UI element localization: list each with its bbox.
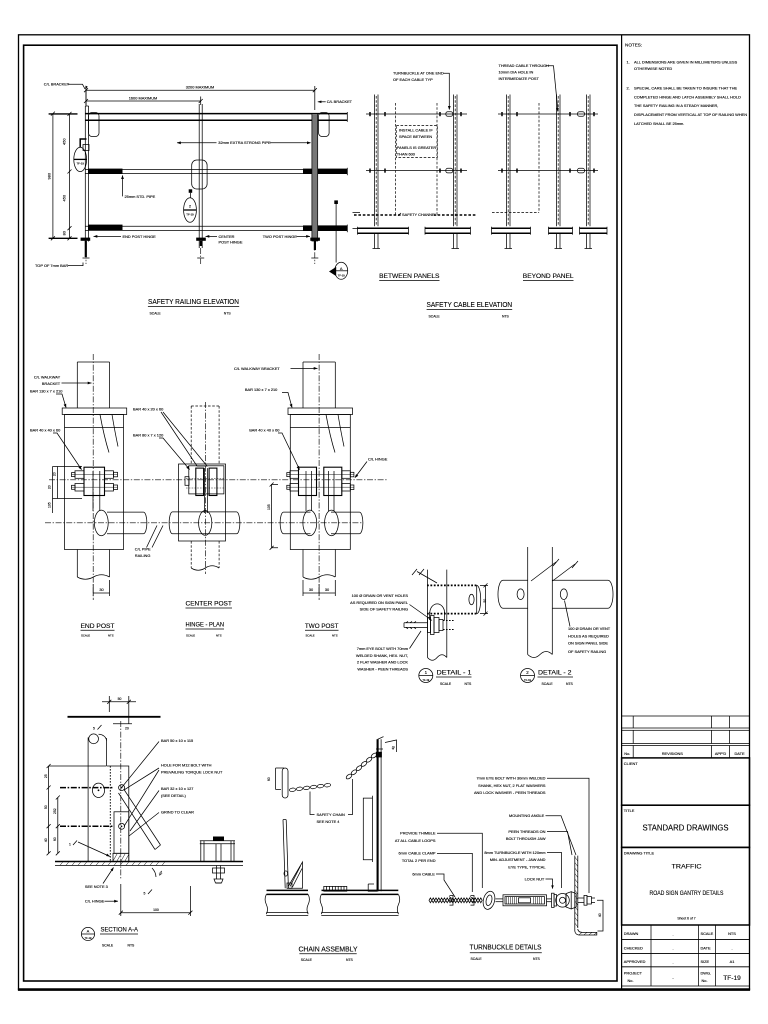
svg-text:SAFETY CHANNEL: SAFETY CHANNEL — [402, 212, 438, 217]
svg-text:SCALE: SCALE — [150, 311, 162, 315]
svg-text:MIN. ADJUSTMENT - JAW AND: MIN. ADJUSTMENT - JAW AND — [490, 857, 546, 862]
svg-text:SCALE: SCALE — [102, 944, 114, 948]
svg-text:TF-19: TF-19 — [186, 212, 194, 216]
dim 40 right — [597, 900, 603, 931]
svg-text:25mm STD. PIPE: 25mm STD. PIPE — [125, 194, 156, 199]
svg-text:100 Ø DRAIN OR VENT: 100 Ø DRAIN OR VENT — [568, 626, 611, 631]
svg-text:SCALE: SCALE — [440, 682, 452, 686]
svg-text:SCALE: SCALE — [81, 633, 90, 637]
svg-text:DATE: DATE — [734, 751, 744, 756]
svg-text:A: A — [87, 929, 90, 934]
svg-text:No.: No. — [628, 978, 634, 983]
TWO POST bracket curves — [326, 415, 344, 453]
svg-text:SAFETY RAILING ELEVATION: SAFETY RAILING ELEVATION — [148, 297, 239, 306]
svg-text:TF-19: TF-19 — [85, 936, 92, 940]
svg-text:TWO POST HINGE: TWO POST HINGE — [263, 234, 297, 239]
DETAIL 1 eye bolt dome — [430, 604, 445, 613]
svg-text:SCALE: SCALE — [429, 314, 441, 318]
svg-text:60: 60 — [53, 837, 57, 841]
install cable dashed box — [396, 126, 437, 158]
CENTER POST vertical centerline — [204, 402, 206, 574]
svg-text:POST HINGE: POST HINGE — [219, 240, 243, 245]
right rod — [547, 898, 552, 900]
svg-text:THAN 600: THAN 600 — [397, 151, 416, 156]
svg-text:OF EACH CABLE TYP: OF EACH CABLE TYP — [393, 77, 433, 82]
END POST left dims — [52, 467, 54, 514]
bottom rail 25mm pipe — [86, 225, 348, 227]
svg-text:No.: No. — [702, 978, 708, 983]
CENTER POST pipe above dashed — [190, 406, 192, 464]
svg-text:C/L PIPE: C/L PIPE — [135, 547, 151, 552]
DETAIL 1 washers and nut — [428, 618, 431, 633]
svg-text:105: 105 — [267, 504, 271, 510]
svg-text:40: 40 — [44, 838, 48, 842]
right walkway band — [322, 889, 399, 891]
END POST bottom dim 30 — [92, 584, 94, 596]
TWO POST top cap — [288, 408, 353, 415]
column dividers bottom table — [650, 925, 652, 986]
svg-text:NTS: NTS — [128, 944, 136, 948]
svg-text:RAILING: RAILING — [135, 553, 151, 558]
left view stored post — [283, 820, 285, 889]
svg-text:SPACE BETWEEN: SPACE BETWEEN — [399, 134, 432, 139]
DETAIL 1 post — [427, 570, 429, 658]
beyond left base — [492, 227, 531, 229]
two post base plate — [310, 238, 320, 241]
svg-text:OF SAFETY RAILING: OF SAFETY RAILING — [568, 649, 606, 654]
left post base — [358, 227, 409, 229]
latch plate — [107, 766, 129, 862]
DETAIL 2 balloon — [521, 669, 535, 683]
svg-text:TF-19: TF-19 — [723, 975, 741, 982]
svg-text:NTS: NTS — [465, 682, 473, 686]
svg-text:CHECKED: CHECKED — [624, 945, 643, 950]
end post base plate — [81, 238, 91, 241]
post pipe — [87, 738, 89, 862]
svg-text:ON SIGN PANEL SIDE: ON SIGN PANEL SIDE — [568, 641, 608, 646]
chain links horizontal — [289, 788, 296, 792]
svg-text:BAR 32 x 10 x 127: BAR 32 x 10 x 127 — [161, 786, 193, 791]
outer border thick bottom edge — [18, 988, 750, 991]
svg-text:TOP OF 7mm BAR: TOP OF 7mm BAR — [35, 263, 68, 268]
svg-text:TRAFFIC: TRAFFIC — [672, 864, 702, 871]
svg-text:LOCK NUT: LOCK NUT — [525, 876, 545, 881]
beyond mid cable — [498, 170, 598, 172]
CENTER POST hinge — [189, 466, 224, 494]
base angle bracket — [368, 884, 377, 891]
latch bar diagonal — [124, 790, 161, 846]
svg-text:DATE: DATE — [701, 945, 711, 950]
END POST bracket curves — [100, 415, 118, 453]
svg-text:252: 252 — [53, 808, 57, 814]
drawn row — [622, 925, 750, 940]
mid cable — [366, 170, 467, 172]
svg-text:TF-19: TF-19 — [524, 678, 531, 682]
svg-text:EYE TYPE, TYPICAL: EYE TYPE, TYPICAL — [508, 864, 546, 869]
svg-text:SCALE: SCALE — [471, 957, 483, 961]
svg-text:NTS: NTS — [108, 633, 114, 637]
svg-text:6mm CABLE CLAMP: 6mm CABLE CLAMP — [399, 851, 436, 856]
END POST body — [65, 415, 124, 550]
svg-text:AS REQUIRED ON SIGN PANEL: AS REQUIRED ON SIGN PANEL — [350, 600, 409, 605]
CENTER POST rail pipe — [173, 511, 237, 513]
svg-text:TURNBUCKLE AT ONE END: TURNBUCKLE AT ONE END — [393, 71, 444, 76]
dim 3200 maximum — [86, 89, 315, 91]
end post hinge pieces — [83, 145, 89, 151]
left view chain post capsule — [282, 768, 288, 798]
svg-text:NTS: NTS — [566, 682, 574, 686]
svg-text:32mm EXTRA STRONG PIPE: 32mm EXTRA STRONG PIPE — [218, 140, 271, 145]
svg-text:C/L BRACKET: C/L BRACKET — [327, 99, 353, 104]
bolt through angle — [578, 897, 584, 899]
END POST rail pipe — [107, 511, 144, 513]
panel edge dashed lines — [395, 103, 397, 215]
svg-text:HINGE - PLAN: HINGE - PLAN — [186, 622, 225, 629]
svg-text:MOUNTING ANGLE: MOUNTING ANGLE — [509, 813, 545, 818]
top rail line — [68, 716, 161, 718]
grating hatch block — [324, 886, 347, 891]
svg-text:SCALE: SCALE — [542, 682, 554, 686]
thimble eye — [481, 890, 496, 911]
svg-text:60: 60 — [267, 777, 271, 781]
CENTER POST leader triangle — [161, 412, 207, 466]
DETAIL 2 weld marks — [553, 559, 578, 568]
svg-text:50: 50 — [44, 805, 48, 809]
hinge centerline across row — [49, 479, 388, 481]
top cable turnbuckle — [446, 112, 453, 117]
balloon A — [81, 927, 94, 940]
safety channel dashed line — [354, 214, 476, 216]
section cut mark — [334, 200, 338, 204]
hex nut on bolt — [566, 892, 576, 909]
center post base plate — [196, 238, 206, 241]
svg-text:WASHER - PEEN THREADS: WASHER - PEEN THREADS — [357, 666, 408, 671]
svg-text:20: 20 — [125, 727, 129, 731]
svg-text:END POST: END POST — [81, 623, 115, 630]
svg-text:PEEN THREADS ON: PEEN THREADS ON — [508, 829, 545, 834]
two post centerline below — [314, 242, 316, 264]
svg-text:C/L HINGE: C/L HINGE — [368, 457, 388, 462]
svg-text:BAR 50 x 10 x 115: BAR 50 x 10 x 115 — [161, 738, 193, 743]
DETAIL 2 left pipe — [503, 579, 528, 581]
svg-text:BEYOND PANEL: BEYOND PANEL — [523, 273, 574, 280]
svg-text:20: 20 — [53, 472, 57, 476]
svg-text:TF-19: TF-19 — [76, 162, 84, 166]
TWO POST right dim 105 — [272, 485, 278, 548]
svg-text:DETAIL - 1: DETAIL - 1 — [437, 670, 473, 677]
svg-text:PROVIDE THIMBLE: PROVIDE THIMBLE — [400, 831, 436, 836]
svg-text:10mm DIA HOLE IN: 10mm DIA HOLE IN — [499, 70, 534, 75]
svg-text:SAFETY CABLE ELEVATION: SAFETY CABLE ELEVATION — [427, 300, 513, 309]
section A marker — [329, 267, 336, 276]
DETAIL 1 dim 50 — [480, 584, 488, 586]
DETAIL 1 eye bolt shaft — [404, 622, 428, 624]
svg-text:980: 980 — [47, 172, 52, 179]
sign panel — [363, 798, 372, 860]
svg-text:CLIENT: CLIENT — [624, 761, 638, 766]
svg-text:CENTER POST: CENTER POST — [186, 601, 233, 608]
svg-text:END POST HINGE: END POST HINGE — [123, 234, 157, 239]
label SAFETY CHANNEL — [398, 213, 401, 216]
svg-text:BAR 130 x 7 x 210: BAR 130 x 7 x 210 — [245, 387, 278, 392]
revision row 1 — [622, 716, 750, 728]
svg-text:INSTALL CABLE IF: INSTALL CABLE IF — [399, 128, 433, 133]
svg-text:20: 20 — [48, 485, 52, 489]
angle foot — [575, 929, 597, 935]
bottom rail 7mm bar left — [88, 225, 123, 230]
left dim chain 450/450/80 — [69, 114, 71, 238]
DETAIL 1 rail pipe dotted — [427, 584, 477, 586]
svg-text:SECTION A-A: SECTION A-A — [101, 927, 139, 934]
svg-text:STANDARD DRAWINGS: STANDARD DRAWINGS — [643, 824, 729, 833]
svg-text:NTS: NTS — [533, 957, 541, 961]
svg-text:APP'D: APP'D — [715, 751, 727, 756]
svg-text:100 Ø DRAIN OR VENT HOLES: 100 Ø DRAIN OR VENT HOLES — [352, 593, 409, 598]
svg-text:APPROVED: APPROVED — [624, 959, 646, 964]
rail continuation dashes right — [353, 212, 361, 214]
TWO POST hinge bolts — [290, 471, 299, 479]
svg-text:SAFETY CHAIN: SAFETY CHAIN — [317, 812, 345, 817]
revision row 2 — [622, 730, 750, 743]
svg-text:1.: 1. — [627, 59, 630, 64]
TWO POST body — [290, 415, 350, 550]
mid rail 7mm bar left — [88, 169, 123, 174]
TWO POST pipe above — [302, 362, 304, 408]
svg-text:DETAIL - 2: DETAIL - 2 — [538, 670, 572, 677]
checked row — [622, 940, 750, 954]
svg-text:C/L BRACKET: C/L BRACKET — [44, 82, 70, 87]
svg-text:DISPLACEMENT FROM VERTICAL AT: DISPLACEMENT FROM VERTICAL AT TOP OF RAI… — [634, 112, 747, 117]
center post detail outline — [192, 160, 207, 189]
svg-text:INTERMEDIATE POST: INTERMEDIATE POST — [499, 76, 540, 81]
svg-text:C/L WALKWAY: C/L WALKWAY — [34, 375, 61, 380]
svg-text:THE SAFETY RAILING IN A STEADY: THE SAFETY RAILING IN A STEADY MANNER, — [634, 103, 718, 108]
svg-text:SEE NOTE 4: SEE NOTE 4 — [317, 819, 341, 824]
latch triangle gusset — [289, 862, 303, 888]
CENTER POST pipe below dashed — [190, 541, 192, 568]
svg-text:2.: 2. — [627, 85, 630, 90]
svg-text:CENTER: CENTER — [219, 234, 235, 239]
rod to turnbuckle — [496, 898, 504, 900]
svg-text:.: . — [731, 946, 732, 951]
svg-text:No.: No. — [624, 751, 630, 756]
label SAFETY CHAIN SEE NOTE 4 — [310, 792, 315, 815]
beyond mid base — [549, 227, 573, 229]
left dim chains — [48, 766, 50, 853]
center post — [198, 104, 200, 248]
svg-text:NTS: NTS — [332, 633, 338, 637]
inner drawing frame — [24, 45, 617, 981]
svg-text:AND LOCK WASHER - PEEN THREADS: AND LOCK WASHER - PEEN THREADS — [474, 790, 546, 795]
svg-text:HOLES AS REQUIRED: HOLES AS REQUIRED — [568, 633, 609, 638]
svg-text:THREAD CABLE THROUGH: THREAD CABLE THROUGH — [499, 63, 550, 68]
svg-text:PREVAILING TORQUE LOCK NUT: PREVAILING TORQUE LOCK NUT — [161, 770, 223, 775]
svg-text:NTS: NTS — [728, 931, 736, 936]
svg-text:LATCHED SHALL BE 25mm.: LATCHED SHALL BE 25mm. — [634, 121, 684, 126]
drawing title box — [622, 847, 750, 925]
svg-text:C/L WALKWAY BRACKET: C/L WALKWAY BRACKET — [234, 366, 280, 371]
dash-dot hinge lines — [60, 787, 114, 789]
END POST vertical centerline — [92, 354, 94, 600]
svg-text:AT ALL CABLE LOOPS: AT ALL CABLE LOOPS — [395, 838, 436, 843]
chain anchor eye — [376, 752, 382, 758]
mid cable turnbuckle — [446, 168, 453, 173]
svg-text:DWG.: DWG. — [701, 970, 712, 975]
svg-text:.: . — [672, 946, 673, 951]
svg-text:NTS: NTS — [346, 958, 354, 962]
svg-text:OTHERWISE NOTED: OTHERWISE NOTED — [634, 66, 672, 71]
rail right end ticks — [346, 112, 348, 122]
svg-text:50: 50 — [118, 697, 122, 701]
dim 50 top — [108, 696, 110, 712]
svg-text:SIDE OF SAFETY RAILING: SIDE OF SAFETY RAILING — [360, 607, 408, 612]
CENTER POST body — [179, 464, 226, 541]
TWO POST pipe below — [302, 550, 304, 578]
BEYOND PANEL right post — [586, 95, 588, 227]
DETAIL 2 right pipe — [552, 579, 608, 581]
dim 100 bottom — [120, 884, 122, 916]
plate bolt holes — [119, 785, 125, 791]
svg-text:SHANK, HEX NUT, 2 FLAT WASHERS: SHANK, HEX NUT, 2 FLAT WASHERS — [478, 783, 546, 788]
END POST hinge bolts — [75, 471, 84, 479]
END POST pipe below — [76, 550, 78, 578]
center post centerline below — [200, 248, 202, 264]
svg-text:BAR 40 x 40 x 60: BAR 40 x 40 x 60 — [249, 428, 280, 433]
svg-text:SCALE: SCALE — [306, 633, 315, 637]
svg-text:BAR 130 x 7 x 210: BAR 130 x 7 x 210 — [30, 389, 63, 394]
mounting angle vertical — [574, 856, 576, 931]
svg-text:TITLE: TITLE — [624, 808, 635, 813]
diag leaders crossing plate — [122, 742, 159, 788]
BEYOND PANEL left post — [506, 95, 508, 227]
turnbuckle body — [503, 895, 547, 906]
svg-text:COMPLETED HINGE AND LATCH ASSE: COMPLETED HINGE AND LATCH ASSEMBLY SHALL… — [634, 94, 741, 99]
svg-text:SPECIAL CARE SHALL BE TAKEN TO: SPECIAL CARE SHALL BE TAKEN TO INSURE TH… — [634, 85, 738, 90]
svg-text:ALL DIMENSIONS ARE GIVEN IN MI: ALL DIMENSIONS ARE GIVEN IN MILLIMETERS … — [634, 59, 738, 64]
svg-text:NOTES:: NOTES: — [625, 43, 642, 48]
svg-text:100: 100 — [153, 908, 159, 912]
walkway surface — [55, 861, 243, 863]
DETAIL 2 post — [527, 547, 529, 655]
svg-text:SIZE: SIZE — [701, 959, 710, 964]
svg-text:NTS: NTS — [502, 314, 510, 318]
two post (shaded) — [312, 114, 318, 241]
svg-text:PANELS IS GREATER: PANELS IS GREATER — [397, 145, 437, 150]
post top dim — [385, 740, 397, 752]
svg-text:2 FLAT WASHER AND LOCK: 2 FLAT WASHER AND LOCK — [357, 660, 409, 665]
dim 1600 maximum — [86, 100, 201, 102]
svg-text:Sheet 6 of 7: Sheet 6 of 7 — [677, 917, 695, 921]
revision header row — [622, 746, 750, 758]
dim 20 — [113, 723, 132, 725]
svg-text:BAR 40 x 40 x 60: BAR 40 x 40 x 60 — [30, 428, 61, 433]
svg-text:25: 25 — [44, 774, 48, 778]
svg-text:BOLT THROUGH JAW: BOLT THROUGH JAW — [506, 836, 546, 841]
svg-text:8mm TURNBUCKLE WITH 120mm: 8mm TURNBUCKLE WITH 120mm — [484, 850, 545, 855]
svg-text:7mm EYE BOLT WITH 70mm: 7mm EYE BOLT WITH 70mm — [357, 646, 408, 651]
end post centerline below — [85, 242, 87, 264]
base hatch under plate — [113, 853, 129, 861]
beyond dashed region — [538, 103, 540, 213]
left walkway band — [267, 889, 309, 891]
left walkway body w/ wavy ends — [265, 894, 309, 914]
latch bar closed rect — [114, 812, 129, 854]
svg-text:ROAD SIGN GANTRY DETAILS: ROAD SIGN GANTRY DETAILS — [650, 890, 724, 897]
cable spiral — [429, 898, 482, 903]
svg-text:DRAWING TITLE: DRAWING TITLE — [624, 850, 655, 855]
svg-text:1600 MAXIMUM: 1600 MAXIMUM — [129, 95, 158, 100]
project row — [622, 967, 750, 986]
chain links rising — [345, 773, 352, 780]
svg-text:105: 105 — [48, 502, 52, 508]
svg-text:5: 5 — [93, 727, 95, 731]
BEYOND PANEL mid post — [556, 95, 558, 227]
cable clamp u-bolts — [449, 896, 454, 906]
right view gantry post — [377, 739, 379, 891]
beyond top cable — [498, 113, 598, 115]
rail centerline across row — [45, 522, 362, 524]
END POST top cap — [62, 408, 127, 415]
client box — [622, 758, 750, 805]
TWO POST vertical centerline — [318, 354, 320, 600]
svg-text:A1: A1 — [730, 959, 735, 964]
svg-text:5: 5 — [144, 892, 146, 896]
svg-text:.: . — [672, 932, 673, 937]
left view dim 60 — [275, 768, 277, 790]
TWO POST rail pipes — [284, 511, 311, 513]
lock nut washer — [552, 893, 555, 907]
svg-text:BRACKET: BRACKET — [42, 381, 61, 386]
end post balloon — [74, 147, 87, 171]
svg-text:450: 450 — [61, 194, 66, 201]
svg-text:TF-19: TF-19 — [422, 678, 429, 682]
svg-text:SCALE: SCALE — [186, 633, 195, 637]
svg-text:BAR 40 x 20 x 60: BAR 40 x 20 x 60 — [133, 407, 164, 412]
svg-text:7mm EYE BOLT WITH 30mm WELDED: 7mm EYE BOLT WITH 30mm WELDED — [476, 776, 545, 781]
svg-text:REVISIONS: REVISIONS — [662, 751, 684, 756]
stored post hole — [284, 871, 288, 876]
TWO POST hinge bars — [299, 467, 317, 495]
svg-text:TURNBUCKLE DETAILS: TURNBUCKLE DETAILS — [470, 943, 542, 952]
TWO POST bottom dims 30 30 — [302, 580, 304, 596]
svg-text:WELDED SHANK, HEX. NUT,: WELDED SHANK, HEX. NUT, — [356, 653, 408, 658]
END POST pipe above — [76, 362, 78, 408]
svg-text:DRAWN: DRAWN — [624, 931, 639, 936]
approved row — [622, 953, 750, 966]
DETAIL 1 balloon — [419, 669, 433, 683]
pipe hole — [92, 783, 104, 797]
svg-text:PROJECT: PROJECT — [624, 970, 643, 975]
svg-text:450: 450 — [61, 138, 66, 145]
svg-text:NTS: NTS — [224, 311, 232, 315]
svg-text:1: 1 — [69, 843, 71, 847]
center post balloon — [184, 198, 197, 223]
end post — [84, 106, 86, 242]
beyond right base — [580, 227, 608, 229]
mid rail 25mm pipe — [86, 168, 348, 170]
keeper assembly — [200, 843, 235, 845]
svg-text:NTS: NTS — [216, 633, 222, 637]
BETWEEN PANELS left post — [374, 95, 376, 227]
left dim chain 980 — [52, 114, 54, 238]
svg-text:.: . — [672, 960, 673, 965]
jaw eye — [556, 894, 570, 908]
title box — [622, 805, 750, 847]
bottom rail 7mm bar right — [303, 225, 347, 230]
svg-text:C/L HINGE: C/L HINGE — [85, 899, 105, 904]
top cable — [366, 113, 467, 115]
DETAIL 1 dotted shank through post — [443, 620, 455, 622]
